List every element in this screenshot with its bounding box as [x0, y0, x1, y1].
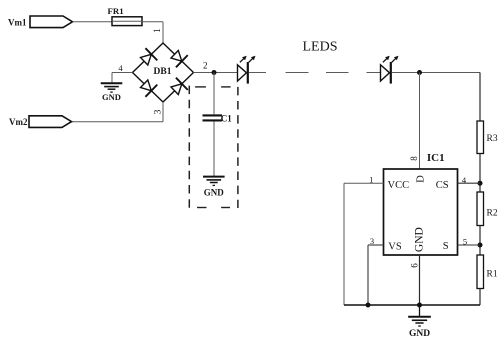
svg-text:LEDS: LEDS [303, 40, 338, 55]
svg-text:5: 5 [463, 237, 467, 247]
svg-text:Vm1: Vm1 [8, 17, 27, 27]
svg-text:8: 8 [409, 156, 419, 161]
svg-text:C1: C1 [221, 113, 232, 123]
svg-text:3: 3 [370, 236, 374, 246]
svg-text:4: 4 [118, 63, 123, 73]
svg-text:DB1: DB1 [154, 67, 172, 77]
svg-text:GND: GND [409, 329, 430, 339]
svg-text:GND: GND [102, 92, 121, 102]
svg-text:1: 1 [152, 28, 162, 32]
svg-text:1: 1 [369, 175, 373, 185]
svg-text:GND: GND [413, 227, 425, 252]
svg-text:VS: VS [388, 242, 402, 253]
svg-text:6: 6 [410, 263, 420, 268]
svg-text:S: S [443, 241, 449, 252]
svg-text:VCC: VCC [388, 180, 410, 191]
svg-text:CS: CS [436, 180, 449, 191]
svg-text:R1: R1 [487, 270, 498, 280]
svg-text:D: D [415, 175, 426, 183]
svg-text:Vm2: Vm2 [9, 117, 28, 127]
svg-text:R3: R3 [487, 134, 498, 144]
svg-text:3: 3 [154, 109, 164, 114]
svg-text:IC1: IC1 [427, 152, 445, 164]
svg-text:FR1: FR1 [108, 6, 124, 16]
svg-text:2: 2 [203, 61, 208, 71]
svg-text:GND: GND [204, 187, 225, 197]
svg-text:R2: R2 [487, 209, 498, 219]
